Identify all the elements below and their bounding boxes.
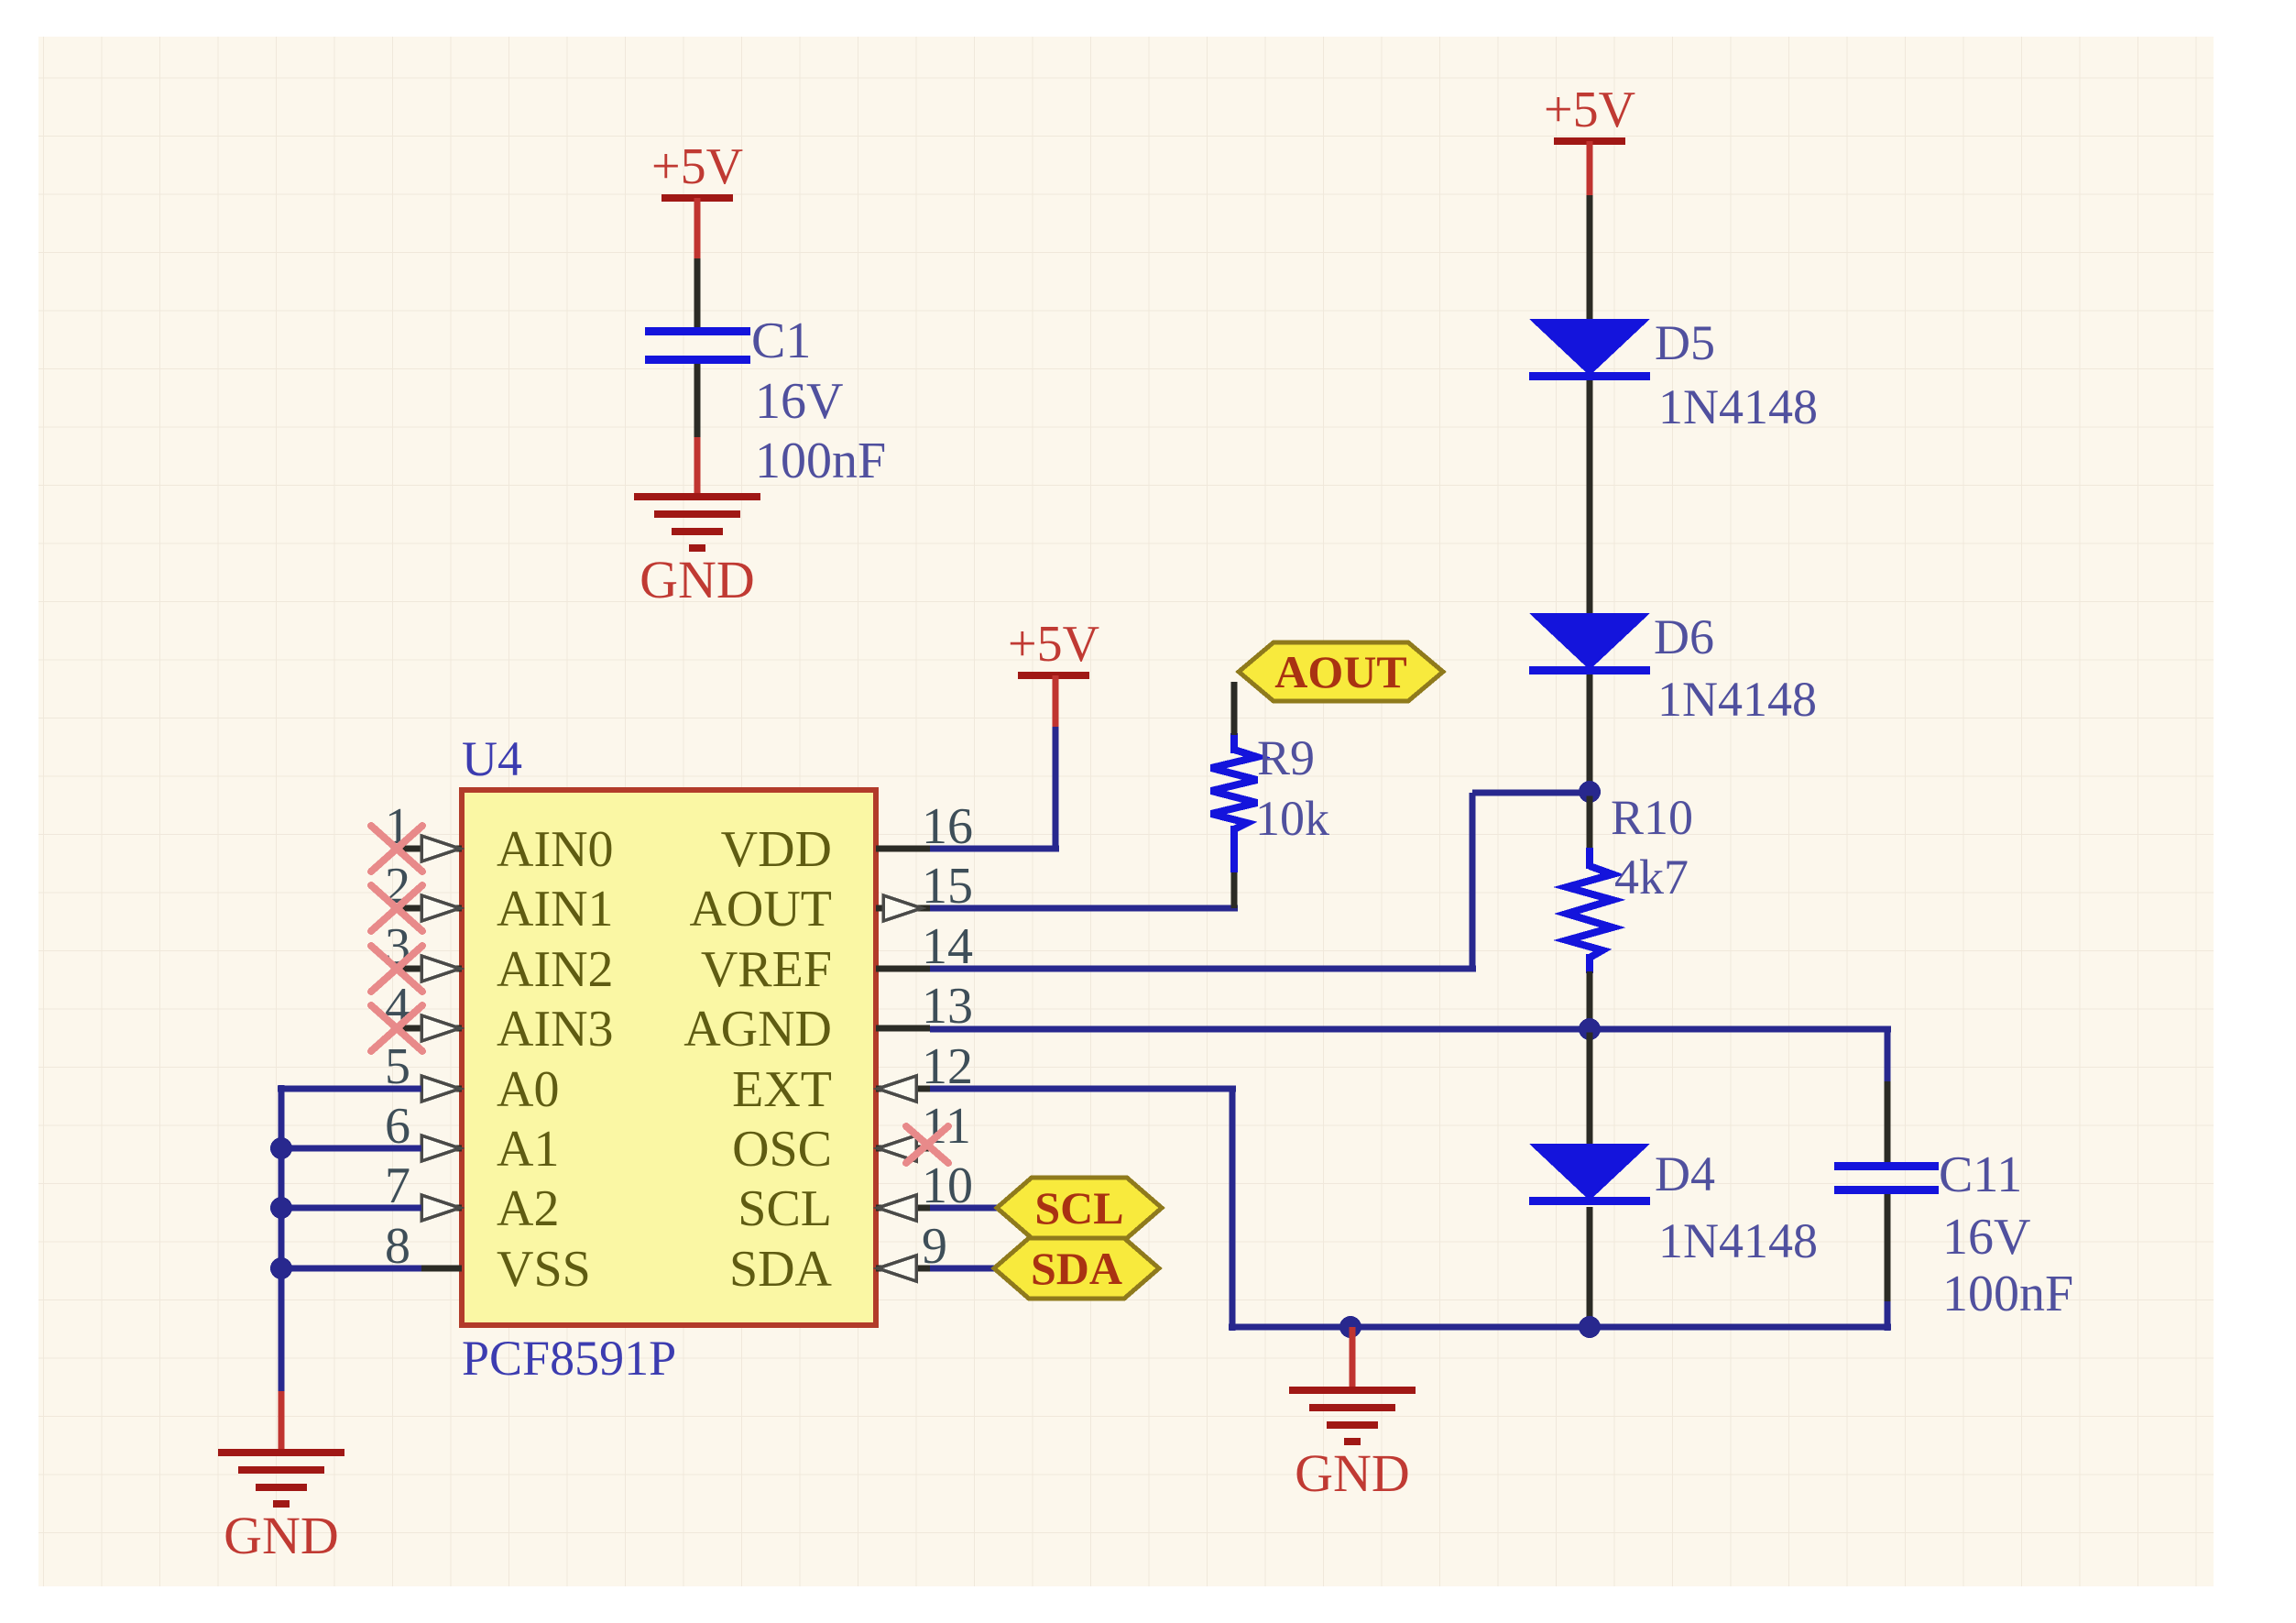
svg-text:AIN2: AIN2 bbox=[497, 941, 614, 998]
svg-text:100nF: 100nF bbox=[1942, 1266, 2073, 1322]
svg-text:+5V: +5V bbox=[1544, 82, 1635, 138]
wire R10 top lead bbox=[1586, 848, 1593, 869]
U4 pin 7 stub bbox=[408, 1205, 462, 1212]
svg-text:AIN0: AIN0 bbox=[497, 821, 614, 878]
wire to C1 top bbox=[694, 258, 701, 330]
junction bus node A2 bbox=[270, 1197, 292, 1219]
svg-text:12: 12 bbox=[922, 1038, 973, 1095]
svg-text:16: 16 bbox=[922, 798, 973, 855]
wire EXT net vertical bbox=[1230, 1089, 1236, 1331]
svg-text:A2: A2 bbox=[497, 1180, 559, 1237]
wire to GND bbox=[1350, 1327, 1356, 1388]
U4 pin 13 stub bbox=[876, 1025, 930, 1032]
svg-text:SDA: SDA bbox=[1031, 1243, 1122, 1294]
wire A2 to bus bbox=[278, 1205, 421, 1212]
U4 pin 10 stub bbox=[876, 1205, 930, 1212]
U4 pin 14 stub bbox=[876, 966, 930, 972]
wire D5 to D6 bbox=[1587, 380, 1593, 615]
U4 pin 3 stub bbox=[392, 966, 462, 972]
wire VDD horizontal to pin 16 bbox=[929, 846, 1059, 852]
svg-text:4k7: 4k7 bbox=[1614, 850, 1689, 905]
capacitor C1 16V 100nF bbox=[645, 313, 886, 489]
wire AOUT net from pin 15 bbox=[930, 905, 1238, 912]
wire R10 to AGND node bbox=[1587, 971, 1593, 1029]
U4 pin 2 stub bbox=[392, 905, 462, 912]
svg-text:14: 14 bbox=[922, 918, 973, 975]
wire R9 top lead bbox=[1230, 733, 1238, 753]
power +5V for C1 bbox=[651, 138, 743, 202]
svg-text:SDA: SDA bbox=[729, 1241, 833, 1298]
wire AGND net pin13 to C11 bbox=[930, 1026, 1891, 1033]
svg-text:SCL: SCL bbox=[1034, 1182, 1123, 1234]
svg-text:PCF8591P: PCF8591P bbox=[462, 1331, 676, 1386]
ground below C1 bbox=[634, 493, 760, 609]
net label flag SCL bbox=[997, 1178, 1162, 1238]
junction bus node VSS bbox=[270, 1257, 292, 1279]
ground bottom left bbox=[218, 1449, 344, 1565]
diode D4 1N4148 bbox=[1529, 1144, 1818, 1268]
wire to GND bbox=[694, 437, 701, 495]
no-connect X pin 3 bbox=[371, 946, 422, 992]
wire C1 bottom lead bbox=[694, 364, 701, 437]
U4 pin 16 stub bbox=[876, 846, 930, 852]
svg-text:R9: R9 bbox=[1257, 730, 1315, 785]
wire VREF net horizontal top bbox=[1472, 790, 1593, 796]
svg-text:VREF: VREF bbox=[701, 941, 832, 998]
wire +5V stem VDD bbox=[1053, 675, 1059, 727]
junction GND tap node bbox=[1339, 1316, 1361, 1338]
svg-text:AOUT: AOUT bbox=[689, 881, 832, 938]
resistor R9 10k bbox=[1211, 730, 1329, 872]
junction R10/D4/AGND node bbox=[1579, 1018, 1601, 1040]
svg-text:GND: GND bbox=[1295, 1443, 1410, 1503]
svg-text:C11: C11 bbox=[1939, 1146, 2022, 1203]
resistor R10 4k7 bbox=[1567, 790, 1693, 973]
wire A1 to bus bbox=[278, 1146, 421, 1152]
wire C11 bottom lead bbox=[1885, 1194, 1891, 1301]
junction D6/R10/VREF node bbox=[1579, 781, 1601, 803]
svg-text:VDD: VDD bbox=[721, 821, 832, 878]
wire node to D4 bbox=[1587, 1029, 1593, 1147]
U4 pin names right column bbox=[683, 821, 832, 1298]
svg-text:1N4148: 1N4148 bbox=[1658, 379, 1818, 434]
svg-text:U4: U4 bbox=[462, 731, 522, 786]
svg-text:A1: A1 bbox=[497, 1121, 559, 1178]
capacitor C11 16V 100nF bbox=[1834, 1146, 2073, 1322]
IC U4 PCF8591P body bbox=[462, 731, 876, 1386]
junction D4 bottom node bbox=[1579, 1316, 1601, 1338]
svg-text:13: 13 bbox=[922, 978, 973, 1035]
wire bus to GND bbox=[279, 1391, 285, 1451]
svg-text:16V: 16V bbox=[755, 373, 843, 430]
svg-text:GND: GND bbox=[224, 1506, 339, 1565]
svg-text:R10: R10 bbox=[1611, 790, 1693, 845]
wire C11 top from AGND bbox=[1885, 1029, 1891, 1081]
U4 pin 1 stub bbox=[392, 846, 462, 852]
svg-text:C1: C1 bbox=[751, 313, 811, 369]
svg-text:+5V: +5V bbox=[1008, 616, 1099, 673]
wire VSS to bus bbox=[278, 1266, 421, 1272]
U4 pin 6 stub bbox=[408, 1146, 462, 1152]
power +5V VDD bbox=[1008, 616, 1099, 679]
wire R9 bottom to pin15 net bbox=[1231, 871, 1238, 908]
wire VDD vertical bbox=[1053, 727, 1059, 849]
svg-text:D5: D5 bbox=[1655, 315, 1715, 370]
wire EXT net from pin 12 bbox=[930, 1086, 1236, 1092]
U4 pin 11 stub bbox=[876, 1146, 930, 1152]
wire AOUT flag to R9 bbox=[1231, 682, 1238, 735]
wire A0 to bus bbox=[278, 1086, 421, 1092]
svg-text:D6: D6 bbox=[1654, 609, 1714, 664]
wire address bus vertical bbox=[279, 1085, 285, 1391]
svg-text:VSS: VSS bbox=[497, 1241, 591, 1298]
wire SCL stub bbox=[930, 1205, 1000, 1212]
wire +5V stem bbox=[1587, 141, 1593, 195]
wire D4 to bottom net bbox=[1587, 1207, 1593, 1327]
wire to D5 bbox=[1587, 195, 1593, 321]
no-connect X pin 4 bbox=[371, 1005, 422, 1051]
ground bottom center bbox=[1289, 1387, 1416, 1503]
net label flag SDA bbox=[994, 1238, 1159, 1299]
svg-text:+5V: +5V bbox=[651, 138, 743, 195]
no-connect X pin 11 bbox=[906, 1126, 948, 1163]
U4 pin 8 stub bbox=[408, 1266, 462, 1272]
svg-text:GND: GND bbox=[640, 550, 755, 609]
diode D6 1N4148 bbox=[1529, 609, 1817, 727]
U4 pin 12 stub bbox=[876, 1086, 930, 1092]
svg-text:AGND: AGND bbox=[683, 1001, 832, 1058]
svg-text:15: 15 bbox=[922, 858, 973, 915]
svg-text:A0: A0 bbox=[497, 1061, 559, 1118]
svg-text:16V: 16V bbox=[1942, 1209, 2030, 1266]
U4 pin 5 stub bbox=[408, 1086, 462, 1092]
net label flag AOUT bbox=[1239, 642, 1443, 701]
svg-text:SCL: SCL bbox=[738, 1180, 832, 1237]
wire bottom net bbox=[1229, 1324, 1891, 1331]
U4 pin 15 stub bbox=[876, 905, 930, 912]
svg-text:AIN3: AIN3 bbox=[497, 1001, 614, 1058]
wire SDA stub bbox=[930, 1266, 998, 1272]
svg-text:OSC: OSC bbox=[732, 1121, 832, 1178]
wire +5V to C1 bbox=[694, 198, 701, 258]
wire VREF net vertical bbox=[1470, 793, 1476, 969]
diode D5 1N4148 bbox=[1529, 315, 1818, 434]
U4 pin 4 stub bbox=[392, 1025, 462, 1032]
wire R10 bottom lead bbox=[1586, 954, 1593, 973]
svg-text:EXT: EXT bbox=[732, 1061, 832, 1118]
power +5V top right bbox=[1544, 82, 1635, 145]
svg-text:D4: D4 bbox=[1655, 1146, 1715, 1201]
wire R9 bottom lead bbox=[1230, 826, 1238, 872]
junction bus node A1 bbox=[270, 1137, 292, 1159]
svg-text:AOUT: AOUT bbox=[1274, 646, 1406, 697]
wire C11 top lead bbox=[1885, 1081, 1891, 1165]
U4 pin 9 stub bbox=[876, 1266, 930, 1272]
wire D6 to junction bbox=[1587, 674, 1593, 792]
svg-text:1N4148: 1N4148 bbox=[1657, 672, 1817, 727]
no-connect X pin 1 bbox=[371, 826, 422, 872]
svg-text:100nF: 100nF bbox=[755, 433, 886, 489]
svg-text:1N4148: 1N4148 bbox=[1658, 1213, 1818, 1268]
no-connect X pin 2 bbox=[371, 885, 422, 931]
U4 pin names left column bbox=[497, 821, 614, 1298]
wire C11 to bottom net bbox=[1885, 1301, 1891, 1331]
svg-text:AIN1: AIN1 bbox=[497, 881, 614, 938]
wire junction to R10 bbox=[1587, 792, 1593, 850]
wire VREF net to pin 14 bbox=[930, 966, 1476, 972]
svg-text:10k: 10k bbox=[1255, 791, 1329, 846]
